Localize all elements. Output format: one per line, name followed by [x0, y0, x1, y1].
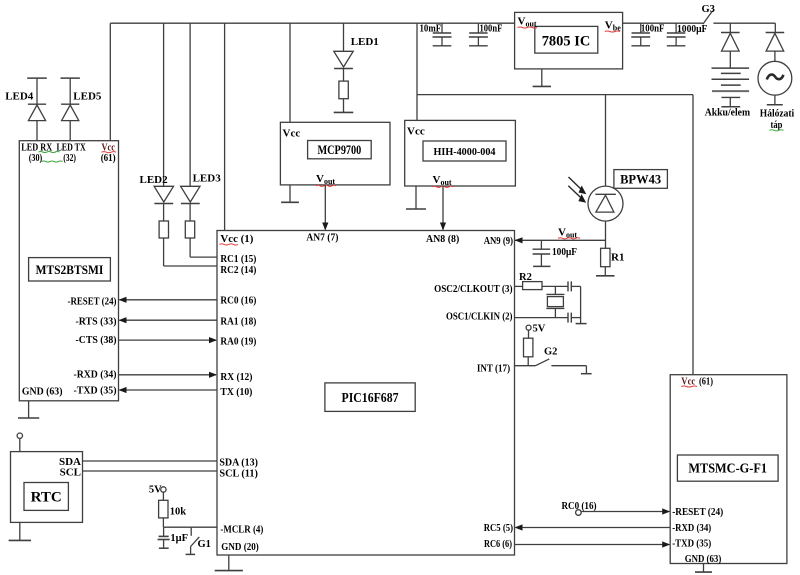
svg-text:RA1 (18): RA1 (18) — [220, 316, 256, 328]
svg-text:GND (20): GND (20) — [221, 541, 259, 553]
svg-text:MTS2BTSMI: MTS2BTSMI — [36, 262, 104, 277]
svg-text:100nF: 100nF — [480, 24, 503, 35]
svg-text:100μF: 100μF — [552, 247, 577, 258]
svg-text:Vcc (1): Vcc (1) — [220, 233, 253, 245]
svg-text:R2: R2 — [519, 272, 532, 283]
svg-text:PIC16F687: PIC16F687 — [342, 390, 399, 405]
svg-text:-RESET (24): -RESET (24) — [672, 506, 723, 518]
svg-text:RC5 (5): RC5 (5) — [484, 522, 514, 534]
svg-text:BPW43: BPW43 — [620, 173, 661, 187]
svg-text:LED3: LED3 — [193, 173, 222, 185]
svg-text:OSC1/CLKIN (2): OSC1/CLKIN (2) — [446, 310, 513, 322]
svg-text:-RTS (33): -RTS (33) — [76, 316, 117, 328]
svg-text:1000μF: 1000μF — [677, 24, 707, 35]
svg-text:RX (12): RX (12) — [220, 371, 252, 383]
svg-text:RTC: RTC — [31, 490, 62, 506]
svg-text:LED2: LED2 — [140, 174, 169, 186]
svg-text:RC0 (16): RC0 (16) — [220, 294, 256, 306]
svg-text:RA0 (19): RA0 (19) — [220, 336, 256, 348]
svg-text:G1: G1 — [198, 539, 211, 550]
svg-text:(30): (30) — [29, 153, 43, 164]
svg-text:AN7 (7): AN7 (7) — [306, 232, 338, 244]
svg-text:LED5: LED5 — [73, 90, 102, 102]
svg-text:Akku/elem: Akku/elem — [705, 108, 751, 119]
svg-text:HIH-4000-004: HIH-4000-004 — [434, 146, 496, 158]
svg-text:10mF: 10mF — [420, 24, 442, 35]
svg-text:RC2 (14): RC2 (14) — [220, 264, 256, 276]
svg-text:Hálózati: Hálózati — [760, 109, 795, 120]
svg-text:R1: R1 — [611, 252, 624, 264]
svg-text:INT (17): INT (17) — [477, 363, 510, 375]
svg-text:LED4: LED4 — [5, 90, 34, 102]
svg-text:Vcc: Vcc — [407, 126, 425, 138]
svg-text:5V: 5V — [533, 324, 546, 335]
svg-text:-MCLR (4): -MCLR (4) — [220, 524, 263, 536]
svg-text:AN9 (9): AN9 (9) — [484, 235, 514, 247]
svg-text:(61): (61) — [101, 153, 116, 164]
svg-text:100nF: 100nF — [641, 23, 665, 34]
svg-text:10k: 10k — [170, 506, 187, 517]
svg-text:G3: G3 — [702, 4, 715, 15]
svg-text:(61): (61) — [699, 375, 713, 387]
svg-text:-TXD (35): -TXD (35) — [74, 385, 117, 397]
svg-text:TX (10): TX (10) — [220, 386, 252, 398]
svg-text:MTSMC-G-F1: MTSMC-G-F1 — [688, 461, 767, 476]
svg-text:AN8 (8): AN8 (8) — [426, 233, 460, 245]
svg-text:G2: G2 — [544, 347, 557, 358]
svg-text:MCP9700: MCP9700 — [318, 143, 362, 157]
svg-text:SCL (11): SCL (11) — [219, 468, 258, 480]
svg-text:LED1: LED1 — [351, 36, 379, 48]
svg-text:(32): (32) — [63, 153, 76, 164]
svg-text:7805 IC: 7805 IC — [542, 34, 591, 50]
svg-text:-CTS (38): -CTS (38) — [76, 334, 117, 346]
svg-text:OSC2/CLKOUT (3): OSC2/CLKOUT (3) — [434, 283, 513, 295]
svg-text:-RXD (34): -RXD (34) — [74, 369, 117, 381]
svg-text:SCL: SCL — [60, 467, 81, 479]
svg-text:GND (63): GND (63) — [685, 553, 722, 565]
svg-text:RC6 (6): RC6 (6) — [484, 538, 512, 550]
svg-text:-RXD (34): -RXD (34) — [672, 522, 711, 534]
svg-text:-TXD (35): -TXD (35) — [672, 537, 711, 549]
svg-text:GND (63): GND (63) — [22, 386, 63, 398]
svg-text:Vcc: Vcc — [283, 128, 301, 140]
svg-text:-RESET (24): -RESET (24) — [68, 295, 117, 307]
svg-text:1μF: 1μF — [170, 533, 188, 544]
